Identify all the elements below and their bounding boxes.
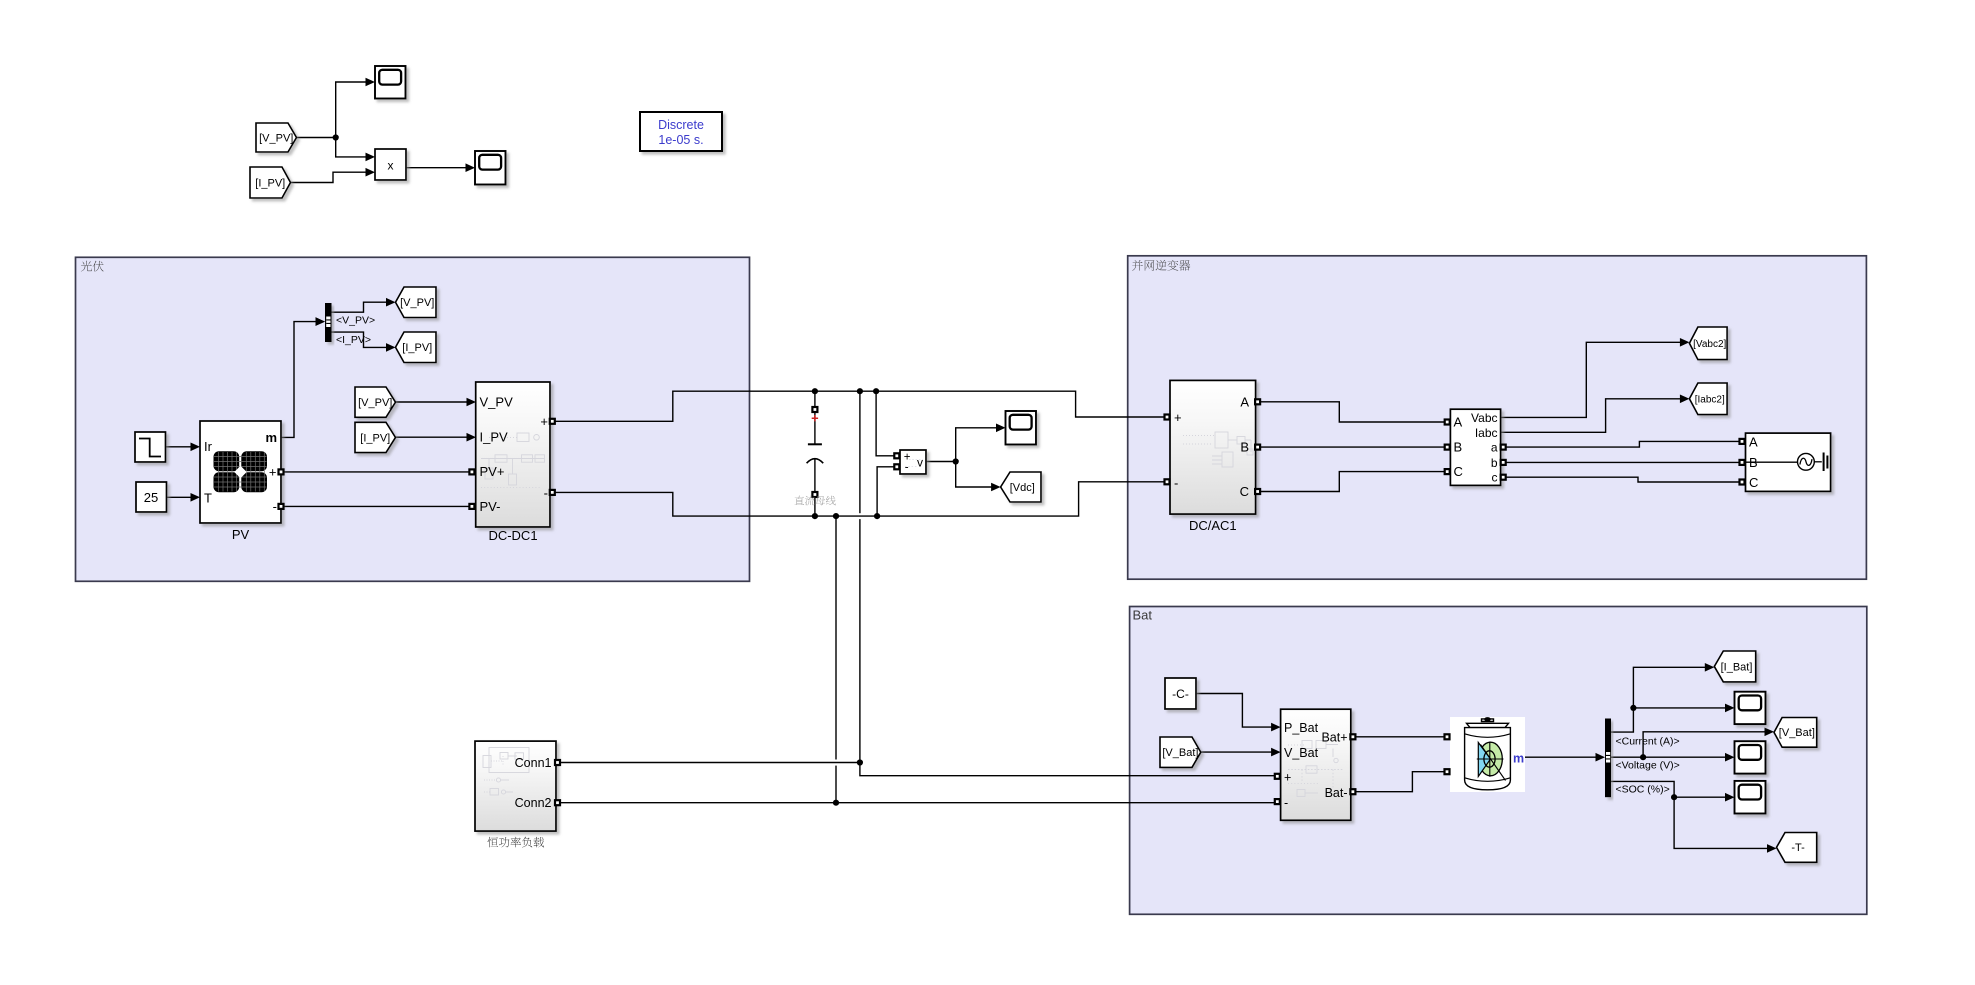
svg-text:Bat-: Bat- [1325, 786, 1348, 800]
wire meas b to source B [1504, 461, 1742, 463]
scope Scope2 [475, 151, 506, 185]
region area 光伏 (PV) [76, 257, 750, 581]
svg-text:PV+: PV+ [480, 464, 505, 479]
svg-text:Vabc: Vabc [1471, 411, 1497, 425]
junction node - rail / voltmeter return [874, 513, 880, 519]
svg-text:B: B [1454, 440, 1463, 455]
wire battery m to bus selector [1525, 756, 1596, 758]
PV array block [200, 421, 281, 523]
wire battery negative drop (long vertical) [835, 516, 837, 759]
wire load Conn2 to battery - [560, 802, 1277, 804]
from tag [V_Bat] [1160, 737, 1201, 767]
svg-text:1e-05 s.: 1e-05 s. [658, 133, 703, 147]
svg-text:m: m [265, 430, 277, 445]
goto tag -T- [1777, 833, 1817, 863]
wire junction down to product input 1 [336, 138, 366, 157]
wire voltmeter out up to scope [956, 428, 997, 462]
wire voltmeter out down to Goto[Vdc] [956, 462, 992, 488]
wire From[V_PV] to DC-DC1 V_PV [396, 401, 468, 403]
wire battery positive drop (long vertical) [859, 391, 861, 513]
svg-text:<SOC (%)>: <SOC (%)> [1616, 784, 1670, 796]
svg-text:PV: PV [232, 527, 250, 542]
wire Bat+ to battery + [1353, 736, 1446, 738]
scope Scope1 [375, 66, 406, 99]
product block x [375, 149, 406, 180]
junction node V_PV top-left [333, 134, 339, 140]
wire bus sel Current to Goto[I_Bat] [1611, 667, 1705, 732]
svg-text:+: + [269, 465, 277, 480]
junction node + rail / capacitor [812, 388, 818, 394]
svg-text:[Vdc]: [Vdc] [1010, 482, 1035, 494]
constant block 25 [136, 482, 167, 512]
svg-text:[V_Bat]: [V_Bat] [1162, 747, 1198, 759]
junction node SOC [1671, 794, 1677, 800]
svg-text:PV-: PV- [480, 499, 501, 514]
wire Bat- to battery - [1353, 772, 1446, 792]
wire bus sel Voltage to scope [1611, 756, 1726, 758]
capacitor 直流母线 (DC bus) [814, 394, 816, 444]
svg-text:V_Bat: V_Bat [1284, 746, 1319, 760]
constant block -C- [1165, 678, 1196, 709]
bus selector (battery measurements) [1605, 719, 1611, 798]
subsystem DC/AC1 [1170, 380, 1256, 514]
svg-text:A: A [1240, 394, 1249, 409]
voltage measurement block v [900, 450, 926, 474]
three-phase VI measurement block [1450, 409, 1500, 485]
goto tag [Vdc] [1001, 472, 1041, 502]
wire meas Iabc to Goto[Iabc2] [1501, 399, 1681, 433]
wire PV- to DC-DC1 PV- [281, 505, 476, 507]
powergui Discrete 1e-05 s. [640, 112, 722, 151]
wire From[V_PV] to junction [297, 137, 336, 139]
goto tag [V_PV] [396, 287, 437, 318]
wire bus selector out2 to Goto[I_PV] [332, 332, 387, 347]
svg-text:25: 25 [144, 490, 158, 505]
svg-text:I_PV: I_PV [480, 429, 509, 444]
from tag [I_PV] (top-left) [250, 167, 291, 198]
wire From[I_PV] to DC-DC1 I_PV [396, 436, 468, 438]
wire DC/AC1 B to meas B [1258, 446, 1447, 448]
scope battery voltage scope [1735, 741, 1766, 773]
svg-text:Discrete: Discrete [658, 118, 704, 132]
wire DC bus positive rail [550, 391, 1168, 421]
junction node + rail / battery feed [857, 388, 863, 394]
goto tag [I_PV] [396, 332, 437, 363]
load block label 恒功率负载 [488, 837, 545, 848]
svg-text:Bat+: Bat+ [1321, 731, 1347, 745]
wire voltmeter - sense [877, 467, 899, 516]
scope battery SOC scope [1735, 781, 1766, 814]
from tag [V_PV] (to DC-DC1) [355, 387, 396, 417]
svg-text:<Voltage (V)>: <Voltage (V)> [1616, 759, 1680, 771]
svg-text:[V_PV]: [V_PV] [259, 132, 293, 144]
svg-text:B: B [1240, 440, 1249, 455]
svg-text:<Current (A)>: <Current (A)> [1616, 735, 1680, 747]
svg-text:+: + [1174, 410, 1182, 425]
wire SOC branch to scope [1674, 796, 1725, 798]
svg-text:P_Bat: P_Bat [1284, 721, 1319, 735]
wire Voltage branch to Goto[V_Bat] [1643, 732, 1765, 757]
svg-text:-T-: -T- [1791, 842, 1805, 854]
svg-text:[V_PV]: [V_PV] [400, 297, 434, 309]
svg-text:Conn1: Conn1 [515, 756, 552, 770]
svg-text:+: + [1284, 771, 1291, 785]
svg-text:<V_PV>: <V_PV> [336, 315, 375, 327]
svg-text:A: A [1749, 434, 1758, 449]
constant power load subsystem 恒功率负载 [475, 741, 556, 831]
wire bus selector out1 to Goto[V_PV] [332, 302, 387, 312]
wire Constant 25 to PV T [167, 496, 192, 498]
scope battery current scope [1735, 692, 1766, 724]
junction node Voltage [1640, 754, 1646, 760]
junction node - rail / capacitor [812, 513, 818, 519]
from tag [V_PV] (top-left) [256, 123, 297, 152]
junction node + rail / voltmeter feed [873, 388, 879, 394]
goto tag [Vabc2] [1689, 327, 1727, 360]
svg-text:C: C [1454, 464, 1463, 479]
wire voltmeter + sense [876, 391, 899, 456]
wire meas c to source C [1504, 477, 1742, 482]
svg-text:DC/AC1: DC/AC1 [1189, 518, 1237, 533]
region area 并网逆变器 (grid-tied inverter) [1128, 256, 1867, 579]
svg-text:V_PV: V_PV [480, 394, 514, 409]
svg-text:b: b [1491, 456, 1498, 470]
svg-text:C: C [1749, 475, 1758, 490]
svg-text:-: - [905, 462, 909, 474]
wire load Conn1 [560, 762, 860, 764]
svg-text:[Iabc2]: [Iabc2] [1695, 395, 1725, 406]
from tag [I_PV] (to DC-DC1) [355, 422, 396, 452]
wire PV+ to DC-DC1 PV+ [281, 471, 476, 473]
battery control subsystem [1281, 709, 1351, 820]
wire product to Scope2 [406, 167, 466, 169]
svg-text:+: + [540, 414, 548, 429]
svg-text:x: x [388, 159, 394, 173]
wire From[I_PV] to product input 2 [291, 172, 367, 182]
wire meas a to source A [1504, 441, 1742, 447]
junction node Conn1 tap [857, 759, 863, 765]
wire -C- to P_Bat [1196, 694, 1272, 728]
svg-text:Conn2: Conn2 [515, 796, 552, 810]
svg-text:m: m [1513, 751, 1524, 765]
svg-text:[I_PV]: [I_PV] [255, 177, 285, 189]
svg-text:c: c [1492, 471, 1498, 485]
three-phase source block [1746, 433, 1831, 491]
junction node - rail / battery return [833, 513, 839, 519]
goto tag [I_Bat] [1714, 651, 1755, 682]
svg-text:<I_PV>: <I_PV> [336, 334, 371, 346]
subsystem DC-DC1 [476, 382, 550, 527]
svg-text:C: C [1240, 484, 1249, 499]
wire From[V_Bat] to V_Bat [1201, 751, 1272, 753]
wire meas Vabc to Goto[Vabc2] [1501, 342, 1681, 417]
svg-text:Ir: Ir [204, 439, 213, 454]
junction node Conn2 tap [833, 800, 839, 806]
svg-text:-C-: -C- [1172, 687, 1189, 701]
svg-text:-: - [1284, 796, 1288, 810]
svg-text:Iabc: Iabc [1475, 426, 1498, 440]
wire DC/AC1 C to meas C [1258, 472, 1447, 492]
wire DC bus negative rail [550, 482, 1168, 516]
svg-text:Bat: Bat [1133, 608, 1153, 623]
svg-text:-: - [1174, 476, 1178, 491]
svg-text:a: a [1491, 441, 1498, 455]
region area Bat (battery) [1130, 607, 1867, 915]
wire junction up to Scope1 [336, 82, 366, 138]
svg-text:[I_Bat]: [I_Bat] [1721, 661, 1753, 673]
bus selector (V_PV/I_PV demux) [325, 303, 332, 342]
svg-text:A: A [1454, 415, 1463, 430]
step source block [135, 432, 166, 462]
wire SOC branch to Goto[-T-] [1674, 797, 1767, 848]
capacitor label 直流母线 [795, 496, 836, 506]
svg-text:DC-DC1: DC-DC1 [488, 528, 537, 543]
goto tag [Iabc2] [1689, 383, 1727, 415]
svg-text:[I_PV]: [I_PV] [360, 432, 390, 444]
scope Vdc scope [1006, 411, 1037, 445]
svg-text:v: v [917, 456, 923, 470]
wire voltmeter output [926, 461, 956, 463]
svg-text:[V_PV]: [V_PV] [358, 397, 392, 409]
junction node voltmeter output [953, 458, 959, 464]
junction node Current [1630, 705, 1636, 711]
wire Current branch to scope [1633, 707, 1725, 709]
svg-text:-: - [273, 499, 277, 514]
wire DC/AC1 A to meas A [1258, 402, 1447, 422]
svg-text:T: T [204, 491, 212, 506]
battery block (icon) [1450, 717, 1525, 792]
goto tag [V_Bat] [1774, 718, 1817, 748]
svg-text:-: - [544, 485, 548, 500]
svg-text:[V_Bat]: [V_Bat] [1779, 727, 1815, 739]
svg-text:[I_PV]: [I_PV] [402, 342, 432, 354]
wire bus sel SOC [1611, 781, 1674, 797]
wire Step to PV Ir [166, 446, 192, 448]
wire PV m to bus selector [281, 322, 316, 438]
svg-text:[Vabc2]: [Vabc2] [1693, 339, 1726, 350]
